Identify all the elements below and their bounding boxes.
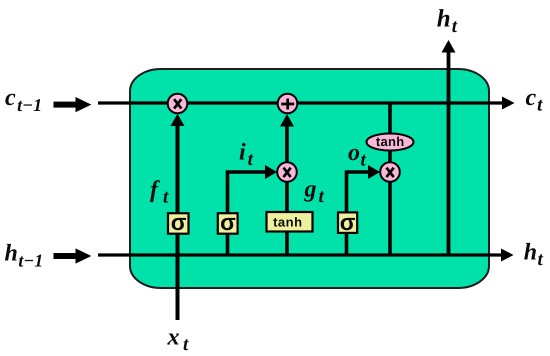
svg-text:tanh: tanh bbox=[273, 214, 302, 229]
svg-text:tanh: tanh bbox=[376, 134, 405, 149]
svg-text:σ: σ bbox=[340, 209, 356, 235]
svg-text:σ: σ bbox=[220, 209, 236, 235]
svg-text:σ: σ bbox=[171, 209, 187, 235]
